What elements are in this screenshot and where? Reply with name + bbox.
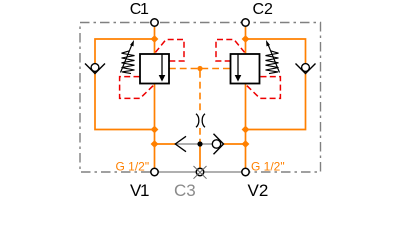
counterbalance valve right: body [231,54,260,84]
junction diamond V1 lower [151,140,159,148]
junction diamond V1 upper [151,126,159,134]
wire: C2 riser [245,27,247,54]
pilot line left valve (red dashed hook from C1) [155,40,184,62]
orifice C3 [196,114,205,127]
enclosure border (manifold boundary) [80,23,321,173]
check valve right [296,64,316,74]
svg-text:C2: C2 [253,1,274,18]
svg-text:G 1/2": G 1/2" [116,160,150,174]
port V2 [242,168,249,175]
junction diamond V2 upper [242,126,250,134]
pilot drain right valve spring side (red dashed) [247,77,281,99]
check valve left [85,64,105,74]
middle check valve line (gray) [175,143,212,145]
counterbalance valve left: spring [122,51,135,74]
port C1 [151,19,158,26]
junction dot drain bus [197,66,202,71]
svg-text:C1: C1 [130,1,149,18]
counterbalance valve left: flow arrow [159,54,166,82]
svg-text:C3: C3 [174,181,196,200]
wire: right check bypass loop [246,39,306,130]
wire: V1 to middle check valve [155,143,176,145]
wire: left check bypass loop [95,39,155,130]
wire: V1 drop [154,84,156,168]
wire: C3 drop [199,146,201,168]
wire: drain drop upper (dashed) [199,71,201,113]
counterbalance valve right: flow arrow [235,54,242,82]
wire: V2 drop [245,84,247,168]
wire: drain drop lower (dashed) [199,128,201,144]
pilot drain left valve spring side (red dashed) [120,77,154,99]
flow arrow toward V1 [175,136,186,151]
port C2 [242,19,249,26]
junction diamond C2 [242,35,250,43]
svg-text:G 1/2": G 1/2" [251,160,285,174]
junction diamond C1 [151,35,159,43]
wire: middle check valve to V2 [224,143,246,145]
counterbalance valve right: adjustment arrow [266,40,280,73]
wire: bottom gallery V1-C3-V2 [152,171,248,174]
svg-text:V2: V2 [248,181,269,200]
junction diamond V2 lower [242,140,250,148]
port V1 [151,168,158,175]
check valve middle [212,134,223,154]
port C3 (plugged) [194,166,207,179]
svg-text:V1: V1 [130,181,149,200]
counterbalance valve left: body [140,54,169,84]
counterbalance valve right: spring [266,51,279,74]
counterbalance valve left: adjustment arrow [121,40,135,73]
pilot line right valve (red dashed hook from C2) [216,40,245,62]
wire: C1 riser [154,27,156,54]
junction dot C3 node [197,141,202,146]
wire: drain bus between valves (dashed) [169,68,231,70]
